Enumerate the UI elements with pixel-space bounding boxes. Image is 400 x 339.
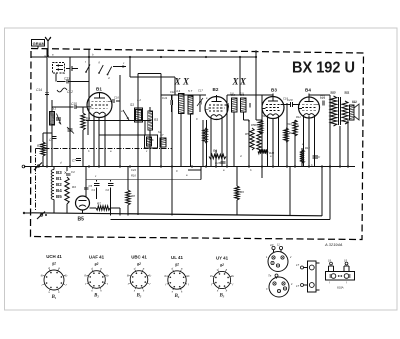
svg-text:UY 41: UY 41	[216, 255, 229, 260]
svg-text:X: X	[232, 77, 240, 87]
svg-text:C12: C12	[67, 90, 73, 94]
svg-text:C11: C11	[162, 96, 168, 100]
svg-text:B2: B2	[56, 182, 62, 187]
svg-text:17: 17	[296, 263, 300, 267]
svg-text:R6: R6	[213, 149, 217, 153]
svg-text:C: C	[176, 169, 178, 173]
svg-text:C2: C2	[106, 188, 110, 192]
svg-text:g2: g2	[51, 262, 56, 266]
svg-text:R5: R5	[245, 132, 249, 136]
svg-text:R1: R1	[37, 144, 41, 148]
svg-text:R4: R4	[205, 128, 209, 132]
svg-text:C18: C18	[215, 161, 221, 165]
svg-text:C20: C20	[287, 98, 293, 102]
svg-text:5.9: 5.9	[240, 92, 244, 96]
svg-text:B3: B3	[271, 88, 277, 93]
svg-text:R9: R9	[240, 190, 244, 194]
svg-text:17: 17	[296, 284, 300, 288]
svg-text:S3: S3	[130, 103, 134, 107]
svg-text:B5: B5	[56, 194, 62, 199]
svg-text:4.2: 4.2	[137, 98, 141, 102]
svg-text:g2: g2	[94, 262, 99, 266]
svg-text:UAF 41: UAF 41	[89, 255, 105, 260]
svg-text:R3: R3	[154, 118, 158, 122]
svg-text:B4: B4	[305, 88, 311, 93]
svg-text:R16: R16	[131, 174, 136, 178]
svg-text:C: C	[196, 117, 198, 121]
svg-text:S10: S10	[331, 91, 336, 95]
svg-text:R7: R7	[97, 202, 101, 206]
svg-text:C24: C24	[131, 168, 136, 172]
svg-text:S7: S7	[158, 130, 162, 134]
svg-text:g2: g2	[174, 262, 179, 266]
svg-text:R5: R5	[251, 123, 255, 127]
svg-text:UBC 41: UBC 41	[131, 255, 147, 260]
svg-text:4.4: 4.4	[176, 89, 181, 93]
svg-text:C1: C1	[49, 138, 53, 142]
svg-text:10: 10	[270, 243, 274, 247]
svg-text:S6: S6	[150, 138, 154, 142]
svg-text:5.7: 5.7	[188, 89, 193, 93]
svg-text:R9: R9	[262, 114, 266, 118]
svg-text:7a: 7a	[268, 274, 272, 278]
svg-text:R12: R12	[296, 115, 301, 119]
svg-text:B2: B2	[213, 87, 219, 92]
svg-text:g2: g2	[136, 262, 141, 266]
svg-text:g₁: g₁	[210, 274, 213, 278]
svg-text:B₄: B₄	[174, 294, 180, 299]
svg-text:C13: C13	[64, 77, 70, 81]
svg-text:C: C	[248, 119, 250, 123]
svg-text:S12: S12	[352, 100, 357, 104]
svg-text:C19: C19	[283, 97, 288, 101]
svg-text:A 32194A: A 32194A	[324, 242, 343, 247]
svg-text:S11: S11	[345, 91, 350, 95]
svg-text:g₁: g₁	[127, 273, 130, 277]
svg-text:C1: C1	[92, 188, 96, 192]
svg-text:X: X	[174, 77, 182, 87]
svg-text:g₁: g₁	[165, 273, 168, 277]
svg-text:BX 192 U: BX 192 U	[292, 60, 355, 77]
svg-text:R9: R9	[254, 123, 258, 127]
svg-text:B1: B1	[56, 176, 62, 181]
svg-text:R8: R8	[131, 194, 135, 198]
svg-text:g2: g2	[219, 263, 224, 267]
svg-text:R10: R10	[287, 122, 292, 126]
svg-text:R14: R14	[305, 146, 310, 150]
svg-text:X: X	[182, 77, 190, 87]
svg-text:C11: C11	[170, 90, 175, 94]
svg-text:X: X	[239, 77, 247, 87]
svg-text:R3: R3	[72, 185, 76, 189]
svg-text:g₁: g₁	[41, 273, 44, 277]
svg-text:C4: C4	[71, 170, 75, 174]
svg-text:5.8: 5.8	[230, 92, 234, 96]
svg-text:C16: C16	[114, 96, 119, 100]
svg-text:C15: C15	[71, 102, 77, 106]
svg-text:B3: B3	[56, 170, 62, 175]
svg-text:B₃: B₃	[136, 293, 142, 298]
svg-text:C14: C14	[36, 88, 42, 92]
svg-text:C21: C21	[320, 95, 325, 99]
svg-text:UCH 41: UCH 41	[46, 254, 62, 259]
svg-text:C17: C17	[198, 89, 203, 93]
svg-text:B₅: B₅	[219, 294, 225, 299]
svg-text:B4: B4	[56, 188, 62, 193]
svg-text:R2: R2	[86, 117, 90, 121]
svg-text:B₂: B₂	[93, 293, 99, 298]
svg-text:B5: B5	[78, 217, 85, 223]
svg-text:m13: m13	[44, 54, 50, 58]
svg-text:B1: B1	[96, 87, 102, 92]
svg-text:g₁: g₁	[84, 273, 87, 277]
svg-text:UL 41: UL 41	[171, 255, 183, 260]
svg-text:GRAM: GRAM	[33, 41, 46, 46]
svg-text:B₁: B₁	[51, 295, 57, 300]
svg-text:810A: 810A	[337, 286, 344, 290]
svg-text:C7: C7	[72, 159, 76, 163]
